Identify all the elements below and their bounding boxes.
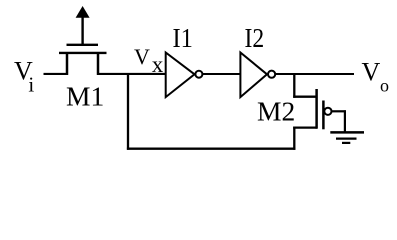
- label Vi: [14, 57, 34, 97]
- wire Vo to M2 drain: [293, 73, 317, 98]
- wire M2 gate to ground: [332, 110, 346, 132]
- svg-text:i: i: [28, 73, 34, 97]
- svg-text:M2: M2: [257, 96, 295, 127]
- svg-text:V: V: [134, 44, 150, 69]
- svg-text:x: x: [152, 52, 164, 77]
- svg-text:I2: I2: [245, 22, 265, 53]
- svg-text:M1: M1: [66, 81, 104, 112]
- label Vx: [134, 44, 164, 77]
- wire M2 source lead: [293, 126, 317, 128]
- wire I1 to I2: [202, 73, 240, 75]
- ground: [330, 132, 364, 143]
- label Vo: [362, 58, 390, 96]
- VDD arrow (supply): [76, 6, 90, 46]
- wire node Vx to I1: [97, 73, 167, 75]
- wire Vi input: [44, 73, 69, 75]
- svg-text:I1: I1: [173, 22, 193, 53]
- svg-text:o: o: [380, 76, 389, 96]
- transistor M1: [59, 45, 107, 75]
- transistor M2: [317, 89, 332, 129]
- inverter I2: [240, 53, 275, 98]
- wire feedback from Vx to M2: [127, 74, 296, 150]
- inverter I1: [166, 53, 203, 98]
- wire I2 to Vo: [275, 73, 354, 75]
- svg-text:V: V: [362, 58, 381, 87]
